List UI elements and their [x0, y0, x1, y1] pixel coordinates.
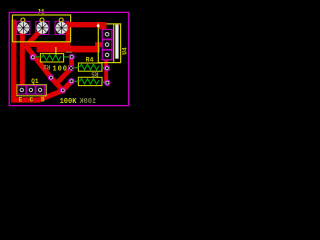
IC U4 pad 1 [102, 29, 112, 39]
via / pad: R2 left pad [30, 55, 35, 60]
wire: elbow down into U4 pad 1 (over U4 silk) [99, 22, 106, 29]
airwire near R2 top [55, 47, 56, 57]
background [0, 0, 138, 114]
wire: vertical between pad A and R4 left pad [69, 57, 74, 68]
via / pad: R5 left pad [69, 79, 74, 84]
svg-text:100K: 100K [60, 98, 78, 106]
resistor R5 lead stub right [102, 81, 105, 83]
transistor Q1 pad B square [36, 86, 44, 94]
transistor Q1 pad E square [18, 86, 26, 94]
via V2 [48, 75, 53, 80]
connector J1 pin marker circle 2 [40, 18, 44, 22]
transistor Q1 silkscreen box [17, 85, 46, 96]
wire: via V3 up to R5 left pad [63, 81, 72, 90]
resistor R5 zigzag [80, 79, 100, 84]
wire: stub from band B to U4 pad 2 [95, 42, 105, 47]
wire: thick top trace from J1 pad3 to U4 pad1 [66, 22, 106, 27]
resistor R5 silkscreen box [78, 77, 102, 85]
board outline (Dimension layer) [9, 12, 129, 105]
svg-text:U4: U4 [122, 47, 129, 55]
wire: left vertical trace from J1 to bottom [11, 20, 16, 103]
svg-text:B: B [41, 96, 45, 103]
IC U4 white tab bar [115, 25, 118, 59]
resistor R4 zigzag [80, 64, 100, 69]
white marker dot [97, 24, 100, 27]
svg-text:R5: R5 [91, 70, 99, 77]
IC U4 pad 2 [102, 40, 112, 50]
resistor R2 lead stub right [64, 56, 69, 58]
resistor R2 silkscreen box [40, 54, 63, 62]
via / pad: R5 right pad [105, 80, 110, 85]
wire: vertical block at J1 pad 3 [66, 24, 71, 52]
connector J1 pad square P1 [17, 21, 30, 34]
wire: right vertical trace from U4 pad3 through R4/R5 right pads [104, 55, 108, 83]
wire: top trace over J1 box edge [69, 22, 72, 27]
svg-text:C: C [30, 96, 34, 103]
connector J1 pin marker circle 3 [59, 18, 63, 22]
wire: R4 left pad down-left to V2-V3 trace [58, 68, 72, 82]
resistor R2 lead stub left [36, 56, 41, 58]
connector J1 drill pad wheel 3 [56, 22, 68, 34]
airwire stub near pad A [66, 52, 72, 53]
wire: via V2 to via V3 [51, 78, 63, 91]
connector J1 pin marker circle 1 [21, 18, 25, 22]
svg-text:R2: R2 [43, 63, 51, 70]
connector J1 pad square P2 [36, 21, 49, 34]
IC U4 pad 3 [102, 50, 112, 60]
svg-text:E: E [19, 96, 23, 103]
resistor R4 lead stub left [75, 67, 79, 69]
resistor R4 silkscreen box [78, 63, 102, 71]
via V3 [60, 88, 65, 93]
IC U4 silkscreen box [98, 24, 120, 63]
svg-text:Q1: Q1 [31, 78, 39, 85]
connector J1 drill pad wheel 2 [36, 22, 48, 34]
wire: trace from J1 pad 1 down to Q1 pad E [20, 30, 25, 90]
resistor R5 lead stub left [75, 80, 79, 82]
connector J1 silkscreen box [12, 15, 70, 42]
svg-text:R4: R4 [86, 56, 94, 63]
wire: long diagonal from band A to via V2 [26, 45, 52, 77]
via / pad B: R4 left pad with origin cross [69, 66, 74, 71]
resistor R2 zigzag [42, 55, 61, 60]
via / pad A above R4 left pad [69, 54, 74, 59]
wire: bottom diagonal to via V3 [39, 90, 63, 100]
svg-text:100K: 100K [79, 98, 97, 106]
wire: horizontal band A [25, 41, 70, 47]
connector J1 pad square P3 [55, 21, 68, 34]
wire: horizontal band B [37, 46, 100, 53]
via / pad: R4 right pad [104, 66, 109, 71]
wire: bottom horizontal trace [12, 97, 41, 102]
IC U4 inner silkscreen line [113, 24, 115, 63]
connector J1 drill pad wheel 1 [17, 22, 29, 34]
wire: diagonal from J1 pad 2 to band A [27, 29, 43, 46]
resistor R4 lead stub right [102, 67, 105, 69]
transistor Q1 pad C square [27, 86, 35, 94]
